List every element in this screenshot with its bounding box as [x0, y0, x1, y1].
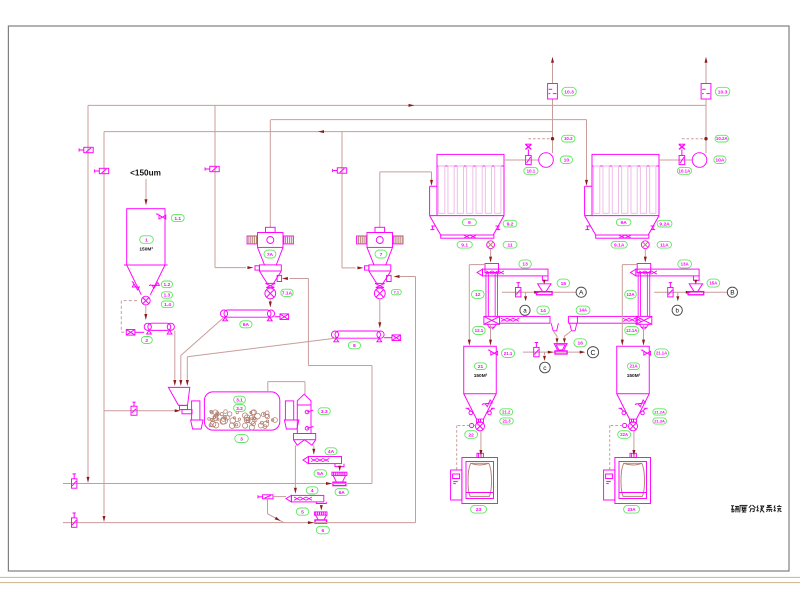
outlet damper 10.1A: [679, 156, 685, 165]
pipe transport line y483: [63, 483, 372, 485]
svg-text:6: 6: [321, 528, 324, 534]
svg-text:11: 11: [507, 243, 512, 249]
title text: [731, 505, 782, 512]
label 7: [375, 250, 387, 258]
svg-text:6A: 6A: [339, 490, 346, 496]
arrow screw 13A to funnel 15A: [694, 280, 697, 285]
svg-text:b: b: [675, 308, 679, 315]
baghouse 9 screw trough: [441, 235, 494, 238]
connection circle a: [520, 305, 530, 315]
belt conveyor 8: [331, 331, 384, 342]
stub to connection a: [524, 292, 527, 301]
chute conveyor 6A to mill: [181, 317, 224, 380]
baghouse 9A body: [585, 166, 659, 216]
pipe rotary 7.1 to conveyor 8: [378, 299, 381, 329]
svg-text:10.2: 10.2: [564, 136, 573, 141]
svg-text:10.1: 10.1: [527, 168, 536, 173]
svg-text:3.3: 3.3: [321, 409, 328, 415]
label 5: [296, 508, 309, 515]
svg-text:10.2A: 10.2A: [716, 136, 729, 141]
connection circle C: [587, 347, 598, 358]
pipe silo 21 to packer 23: [479, 431, 482, 456]
hopper 1 feed text: [130, 169, 161, 178]
label 8: [348, 342, 360, 349]
valve 1.1: [156, 214, 166, 219]
outlet damper 10.1: [526, 156, 532, 165]
pipe product line C: [523, 351, 582, 353]
bucket elevator 12 boot: [484, 316, 500, 324]
svg-text:10.1A: 10.1A: [679, 168, 692, 173]
mill feed hopper: [168, 387, 192, 413]
svg-text:4: 4: [311, 488, 314, 494]
rotary valve 11A: [641, 241, 649, 249]
baghouse 9 clean plenum: [437, 154, 504, 166]
svg-text:14: 14: [540, 308, 546, 314]
damper on x342: [333, 168, 347, 173]
pipe classifier 7A secondary air: [290, 279, 373, 484]
pipe elevator 12A vent to silo 21A: [621, 265, 637, 346]
svg-text:150M³: 150M³: [627, 373, 641, 379]
screw conveyor 14A: [568, 316, 641, 330]
label 1: [140, 236, 154, 244]
bucket elevator 12A boot: [636, 316, 652, 324]
pipe H2 drop to baghouse 9A: [586, 120, 588, 180]
arrow exhaust up A: [705, 57, 708, 63]
connection circle c: [540, 362, 551, 373]
drop funnel 15: [537, 284, 553, 295]
fan 10: [539, 153, 554, 168]
pipe product line A: [502, 291, 576, 293]
arrow into baghouse 9A inlet: [585, 180, 588, 186]
arrow onto conveyor 2: [144, 314, 147, 320]
pipe conveyor 2 discharge to mill: [174, 331, 176, 380]
flex joint under classifier 7: [375, 283, 385, 287]
pipe header H3: [104, 131, 553, 133]
arrow into classifier 7A side port: [282, 277, 288, 280]
svg-text:a: a: [523, 308, 527, 315]
bucket elevator 12A head: [637, 264, 651, 273]
svg-text:<150um: <150um: [130, 169, 161, 178]
label 23A: [624, 505, 640, 513]
svg-text:4A: 4A: [328, 449, 335, 455]
classifier 7A side port: [277, 275, 282, 281]
pipe rotary 7.1A to conveyor 6A: [269, 299, 272, 308]
aeration nozzle left 21: [466, 408, 473, 414]
label 21: [475, 363, 487, 370]
baghouse 9A inlet plenum: [585, 186, 592, 215]
label 21.1A: [655, 349, 669, 358]
vent damper at screw 4: [258, 495, 286, 499]
svg-text:9.2A: 9.2A: [659, 221, 670, 227]
valve on hopper 1 cone right: [149, 281, 159, 289]
pipe rotary 1.3 to conveyor 2: [145, 305, 147, 314]
pipe W-box to screw 4: [294, 446, 297, 494]
mill vent pipe: [268, 382, 305, 395]
label 4: [306, 487, 318, 494]
label 10.1A: [677, 167, 691, 174]
arrow on line A: [534, 291, 540, 294]
svg-text:5A: 5A: [317, 471, 324, 477]
instrument on line A: [516, 283, 521, 297]
label 7.1A: [281, 289, 293, 296]
baghouse 9A screw trough: [596, 235, 649, 238]
svg-text:22: 22: [468, 432, 474, 438]
svg-text:8: 8: [353, 343, 356, 349]
grinding balls: [208, 410, 278, 430]
svg-text:12A: 12A: [626, 292, 635, 297]
relief valve on silo 21A: [641, 350, 651, 355]
arrow screw 13 to funnel 15: [543, 280, 546, 285]
baghouse 9A leg left: [585, 226, 590, 230]
pipe valve 11 to elevator 12: [489, 249, 492, 263]
label 3.1: [234, 396, 246, 403]
label 22A: [618, 431, 631, 439]
label 9.2A: [657, 220, 672, 227]
pipe mill feed air line: [104, 410, 175, 412]
silo 1 (hopper 150M3): [124, 209, 168, 295]
arrow mill feed air: [175, 409, 181, 412]
classifier 7 top cap: [375, 227, 385, 232]
arrow on vent diagonal: [275, 517, 281, 521]
svg-text:13: 13: [522, 262, 528, 268]
packer 23 control cabinet: [451, 470, 462, 500]
label 23: [471, 505, 487, 513]
svg-text:15: 15: [561, 281, 567, 287]
screw conveyor 13A: [631, 269, 700, 280]
bucket elevator 12A boot fork: [639, 324, 648, 329]
label 7A: [264, 250, 276, 258]
pipe silo 21A to packer 23A: [632, 431, 635, 456]
classifier 7 body: [367, 233, 393, 248]
pipe elevator 12A boot to silo 21A: [642, 324, 645, 345]
stub to connection b: [676, 292, 679, 301]
arrow on line y522: [308, 521, 314, 524]
svg-text:1: 1: [145, 237, 148, 243]
classifier 7A left motor stub: [247, 236, 257, 244]
label 5A: [314, 470, 327, 477]
silo 21A: [617, 346, 650, 419]
svg-text:22A: 22A: [620, 432, 628, 437]
svg-text:9.1: 9.1: [461, 243, 468, 249]
ball mill 3 shell: [204, 392, 279, 430]
label 12A: [625, 290, 637, 298]
rotary valve under silo 21: [476, 422, 485, 431]
pipe classifier 7 vent to baghouse 9: [380, 172, 432, 227]
butterfly valve above damper 10: [525, 144, 531, 155]
svg-text:15A: 15A: [709, 281, 718, 286]
svg-text:10.3: 10.3: [564, 89, 574, 95]
arrow screw 4 discharge: [320, 505, 323, 510]
label 10.1: [524, 167, 538, 174]
label 6 funnel: [316, 526, 329, 534]
silencer 10.3A: [701, 84, 711, 100]
instrument on mill feed line: [131, 402, 137, 415]
label 1.4: [161, 301, 174, 308]
connection circle B: [727, 287, 737, 297]
svg-text:1.3: 1.3: [164, 293, 171, 299]
packer 23 bag spout: [477, 453, 483, 457]
label 3: [235, 435, 249, 443]
svg-text:6A: 6A: [243, 322, 250, 328]
label 9: [462, 219, 476, 226]
chute screw 14 to funnel 16: [553, 331, 558, 343]
label 12: [472, 290, 485, 298]
label 13A: [678, 260, 692, 268]
svg-text:21.2A: 21.2A: [654, 409, 665, 414]
classifier 7 lower cone: [369, 271, 391, 283]
svg-text:5: 5: [301, 509, 304, 515]
screw conveyor 14: [500, 316, 559, 330]
pipe left vert x104: [103, 132, 105, 515]
arrow into line y522 from x104: [103, 516, 106, 522]
damper on x104: [95, 168, 109, 173]
label 10.2A: [715, 135, 729, 142]
stub to connection c: [543, 352, 546, 361]
label 13: [519, 260, 531, 268]
svg-text:3: 3: [240, 436, 243, 442]
label 2: [141, 337, 152, 344]
arrow into baghouse 9 inlet: [430, 180, 433, 186]
instrument at line y522: [72, 513, 77, 527]
packer 23A bag spout: [630, 453, 636, 457]
dashed control packer 23A: [610, 423, 630, 469]
aeration nozzle right 21: [488, 408, 495, 414]
label 6A: [240, 321, 252, 328]
baghouse 9 leg right: [496, 226, 501, 230]
svg-text:c: c: [543, 365, 547, 372]
hopper 1 volume text: [139, 247, 153, 253]
arrow into classifier 7 side port: [394, 275, 400, 278]
svg-text:10: 10: [564, 158, 570, 164]
drop funnel 6A: [332, 472, 347, 485]
pipe classifier 7A riser to H2: [269, 120, 271, 228]
svg-text:1.1: 1.1: [174, 216, 181, 222]
classifier 7A body: [258, 233, 284, 248]
packer 23 big bag: [466, 463, 494, 496]
svg-text:3.2: 3.2: [236, 406, 243, 412]
label 3.2: [234, 405, 246, 412]
pipe classifier 7 secondary air: [400, 277, 416, 523]
svg-text:21.3A: 21.3A: [654, 418, 665, 423]
dashed control hopper1 to conveyor2 motor: [121, 301, 137, 333]
damper on x215: [205, 166, 219, 171]
pipe W-box to screw 4A: [312, 446, 315, 455]
aeration nozzle left 21A: [619, 408, 626, 414]
label 21.2: [500, 409, 513, 415]
instrument at line y483: [72, 474, 77, 488]
damper on x88: [79, 147, 93, 152]
drop funnel 16: [554, 344, 567, 354]
pipe vert x215 to classifier 7A: [215, 105, 246, 267]
classifier 7A top cap: [266, 227, 276, 232]
flex joint under classifier 7A: [266, 283, 276, 287]
pipe feed into hopper 1: [145, 179, 147, 199]
label 14: [537, 306, 549, 314]
drop funnel 6: [314, 512, 327, 523]
svg-text:11A: 11A: [660, 243, 669, 249]
label 9.1: [457, 241, 472, 248]
pipe header H2: [271, 119, 587, 121]
screw conveyor 4A: [303, 457, 344, 467]
label 11: [503, 241, 517, 248]
arrow on line C pre-funnel: [548, 351, 554, 354]
svg-text:13A: 13A: [681, 262, 690, 267]
label 7.1: [391, 290, 401, 295]
svg-text:2: 2: [145, 338, 148, 344]
rotary valve 7.1A: [265, 288, 276, 299]
classifier 7 inlet stub: [365, 266, 369, 270]
classifier 7 right motor stub: [393, 236, 403, 244]
svg-text:21A: 21A: [630, 364, 638, 369]
svg-text:7A: 7A: [267, 252, 274, 258]
label 10.2: [562, 135, 576, 142]
svg-text:21.3: 21.3: [502, 419, 511, 424]
classifier 7A lower cone: [259, 271, 281, 283]
arrow screw 4A discharge: [338, 466, 341, 471]
fan 10A: [692, 153, 707, 168]
mill discharge W-box: [294, 434, 316, 446]
svg-text:C: C: [590, 350, 595, 357]
title strip line: [0, 577, 800, 582]
classifier 7A inlet stub: [255, 266, 259, 270]
label 9.1A: [611, 241, 627, 248]
flex joint under silo 21A: [630, 419, 637, 422]
relief valve on silo 21: [488, 350, 498, 355]
connection circle b: [672, 305, 682, 315]
butterfly valve above damper A: [679, 144, 685, 155]
rotary valve under silo 21A: [629, 422, 638, 431]
svg-text:21.1: 21.1: [504, 351, 513, 356]
label 4A: [325, 448, 337, 455]
bucket elevator 12 head: [485, 264, 499, 273]
packer 23A frame: [615, 458, 651, 504]
arrow into line y483 from x88: [87, 477, 90, 483]
classifier 7 side port: [387, 275, 392, 281]
silo 21A volume text: [627, 373, 641, 379]
svg-text:1.4: 1.4: [164, 302, 171, 308]
flex joint under silo 21: [477, 419, 484, 422]
svg-text:21.1A: 21.1A: [656, 351, 667, 356]
arrow into classifier 7 inlet: [357, 266, 363, 269]
dashed control packer 23: [457, 423, 477, 469]
svg-text:1.2: 1.2: [164, 282, 171, 288]
label 14A: [576, 306, 590, 314]
bucket elevator 12 boot fork: [487, 324, 496, 329]
svg-text:21: 21: [478, 364, 484, 370]
instrument on line C: [534, 343, 539, 357]
label 11A: [657, 241, 671, 248]
svg-text:14A: 14A: [579, 308, 588, 313]
label 6A funnel: [335, 489, 348, 496]
label 15A: [707, 279, 720, 287]
arrow exhaust up L: [551, 57, 554, 63]
belt conveyor 6A: [220, 310, 274, 321]
arrow mill feed 3: [186, 380, 189, 386]
pipe exhaust stack 10.3A: [705, 63, 707, 153]
valve on hopper 1 cone left: [130, 282, 140, 290]
arrow mill feed 2: [179, 380, 182, 386]
baghouse 9 hopper: [430, 216, 504, 235]
pipe baghouse outlet A: [659, 159, 692, 161]
svg-text:150M³: 150M³: [474, 373, 488, 379]
svg-text:9.2: 9.2: [507, 221, 514, 227]
label 12.1A: [625, 326, 639, 334]
valve on silo 21A cone: [635, 399, 645, 409]
rotary valve 11: [487, 241, 495, 249]
svg-text:23: 23: [476, 507, 482, 513]
connection circle A: [576, 287, 586, 297]
arrow on line C post-funnel: [580, 351, 586, 354]
label 10.3A: [715, 87, 730, 96]
pipe transport line y522: [63, 522, 416, 524]
label 10A: [714, 156, 726, 164]
baghouse 9A hopper: [585, 216, 659, 235]
dashed link fan A: [682, 138, 707, 140]
arrow mill feed 1: [173, 380, 176, 386]
svg-text:9: 9: [468, 220, 471, 226]
silo 21: [464, 346, 497, 419]
arrow on line B: [686, 291, 692, 294]
label 22: [465, 431, 478, 439]
screw conveyor 4: [286, 495, 326, 503]
mill right bearing: [284, 401, 299, 429]
label 1.2: [161, 281, 172, 288]
label 10.3: [562, 87, 577, 96]
valve on silo 21 cone: [482, 399, 492, 409]
label 10: [560, 156, 572, 164]
svg-text:23A: 23A: [628, 507, 637, 512]
screw conveyor 13: [477, 269, 548, 280]
baghouse 9A clean plenum: [592, 154, 659, 166]
packer 23A control cabinet: [604, 470, 615, 500]
label 9A: [616, 219, 631, 226]
svg-text:7.1A: 7.1A: [282, 291, 293, 297]
chute screw 14A to funnel 16: [563, 331, 571, 343]
label 3.3: [318, 408, 330, 415]
vent pipe to line y522: [268, 499, 284, 523]
svg-text:12: 12: [475, 292, 481, 298]
label 1.1: [171, 214, 184, 221]
label 21.2A: [653, 409, 667, 415]
dashed link fan 10: [528, 138, 553, 140]
baghouse 9 inlet plenum: [430, 186, 437, 215]
svg-text:12.1: 12.1: [475, 328, 484, 333]
label 9.2: [503, 220, 517, 227]
classifier 7 cone: [367, 247, 393, 265]
svg-text:A: A: [579, 290, 584, 297]
drop funnel 15A: [688, 284, 704, 295]
label 16: [574, 339, 587, 347]
belt conveyor 2: [144, 323, 174, 334]
label 21.3A: [653, 418, 667, 424]
mill left bearing: [191, 401, 204, 429]
svg-text:3.1: 3.1: [236, 397, 243, 403]
pipe vert x342 to classifier 7: [342, 132, 356, 268]
label 1.3: [161, 292, 172, 299]
arrow into hopper 1: [145, 199, 148, 205]
svg-text:12.1A: 12.1A: [626, 328, 637, 333]
svg-text:7: 7: [380, 252, 383, 258]
label 12.1: [473, 326, 486, 334]
pipe header H1: [88, 104, 706, 106]
label 21.1: [502, 349, 515, 358]
pipe exhaust stack 10.3: [552, 63, 554, 153]
baghouse 9 body: [430, 166, 504, 216]
classifier 7 receiver: [369, 265, 391, 271]
arrow on line y483: [326, 482, 332, 485]
motor of conveyor 6A: [275, 314, 289, 320]
packer 23A big bag: [619, 463, 647, 496]
